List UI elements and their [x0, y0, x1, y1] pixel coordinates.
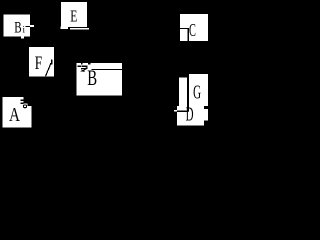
label box C (top right)	[180, 14, 208, 41]
white leader dash right of box B1	[30, 25, 34, 27]
black slash mark in box F	[46, 63, 52, 76]
black vertical line of small corner box in C	[188, 28, 189, 41]
label box F (middle left)	[29, 47, 54, 77]
black horizontal line of small corner box in C	[180, 28, 189, 29]
svg-text:A: A	[9, 105, 20, 126]
white tab below box B1	[21, 37, 24, 39]
label box B1 (top left)	[4, 15, 31, 37]
black dash 2 in middle box	[82, 65, 88, 67]
black horizontal line to right edge of middle box	[92, 69, 122, 70]
white tab left of box D	[174, 110, 177, 112]
svg-text:E: E	[70, 6, 77, 25]
label box D (bottom right)	[177, 106, 204, 126]
black notch 2 on top edge of middle box	[88, 63, 91, 65]
label box G (right)	[189, 74, 208, 106]
black vertical tick at right edge of box F	[51, 59, 52, 64]
black leader dash inside box B1	[26, 26, 30, 27]
black dash 1 in middle box	[78, 65, 81, 67]
black b-like mark at corner of box A	[24, 105, 27, 108]
svg-text:C: C	[189, 20, 196, 40]
white underline segment below box E	[70, 28, 89, 30]
black notch 1 on top edge of middle box	[81, 63, 83, 65]
white corner patch of box A	[24, 103, 28, 106]
black horizontal line in box D	[177, 111, 188, 112]
label box A (bottom left)	[3, 97, 32, 127]
white right extension of box D	[204, 109, 208, 121]
svg-text:G: G	[193, 83, 201, 104]
white strip left of box G	[179, 78, 187, 107]
label box B-tilde (middle)	[77, 63, 123, 95]
black dash 2 at right edge of box A	[20, 102, 23, 104]
svg-text:D: D	[186, 104, 194, 125]
black vertical connector line above letter D	[187, 106, 189, 112]
white dash below-left of box E	[60, 27, 68, 30]
label box E (top middle)	[61, 2, 87, 27]
black zigzag mark in middle box	[81, 68, 87, 71]
black dash 1 at right edge of box A	[20, 100, 23, 102]
svg-text:F: F	[35, 53, 42, 74]
svg-text:B: B	[14, 19, 21, 36]
svg-text:B: B	[87, 65, 97, 90]
